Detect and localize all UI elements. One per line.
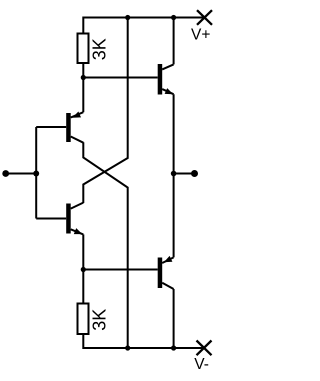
- svg-text:V+: V+: [191, 26, 210, 43]
- wire Q4 base: [83, 269, 157, 271]
- wire V+ rail: [83, 18, 204, 34]
- junction dot top rail right: [171, 15, 176, 20]
- wire input bus: [35, 127, 37, 219]
- wire Q3 base: [36, 218, 66, 220]
- junction dot bottom rail right: [171, 345, 176, 350]
- wire Q2 collector to V- rail (crossover): [83, 142, 127, 348]
- wire input stub: [6, 173, 37, 175]
- transistor Q3 (NPN): [66, 203, 83, 235]
- node B junction dot: [81, 267, 86, 272]
- wire Q1 emitter to node OUT: [173, 94, 175, 173]
- node IN junction dot: [33, 171, 39, 177]
- wire node A to Q1 base: [83, 77, 157, 79]
- wire Q3 emitter to node B: [82, 234, 84, 269]
- terminal X V+: [197, 10, 212, 25]
- wire Q3 collector to V+ rail (crossover): [83, 18, 127, 204]
- wire Q2 base: [36, 126, 66, 128]
- svg-text:V-: V-: [194, 356, 209, 373]
- wire node B to R2: [82, 270, 84, 304]
- wire V- rail: [83, 335, 204, 349]
- transistor Q1 (NPN): [158, 64, 174, 95]
- wire node OUT to Q4 emitter: [173, 174, 175, 258]
- terminal X V-: [197, 341, 212, 356]
- wire Q1 collector to V+ rail: [173, 18, 175, 65]
- node OUT junction dot: [171, 171, 177, 177]
- resistor R2: [78, 304, 89, 335]
- wire Q2 emitter to node A: [82, 78, 84, 113]
- wire Q4 collector to V- rail: [173, 289, 175, 348]
- svg-text:3K: 3K: [90, 38, 110, 60]
- node A junction dot: [81, 75, 86, 80]
- transistor Q2 (PNP): [66, 112, 83, 143]
- transistor Q4 (PNP): [158, 256, 174, 289]
- wire output stub: [174, 173, 195, 175]
- junction dot bottom rail left: [125, 345, 130, 350]
- resistor R1: [78, 34, 89, 64]
- wire R1 bottom to node A: [82, 64, 84, 78]
- terminal IN dot: [2, 170, 9, 177]
- junction dot top rail left: [125, 15, 130, 20]
- terminal OUT dot: [191, 170, 198, 177]
- svg-text:3K: 3K: [90, 309, 110, 331]
